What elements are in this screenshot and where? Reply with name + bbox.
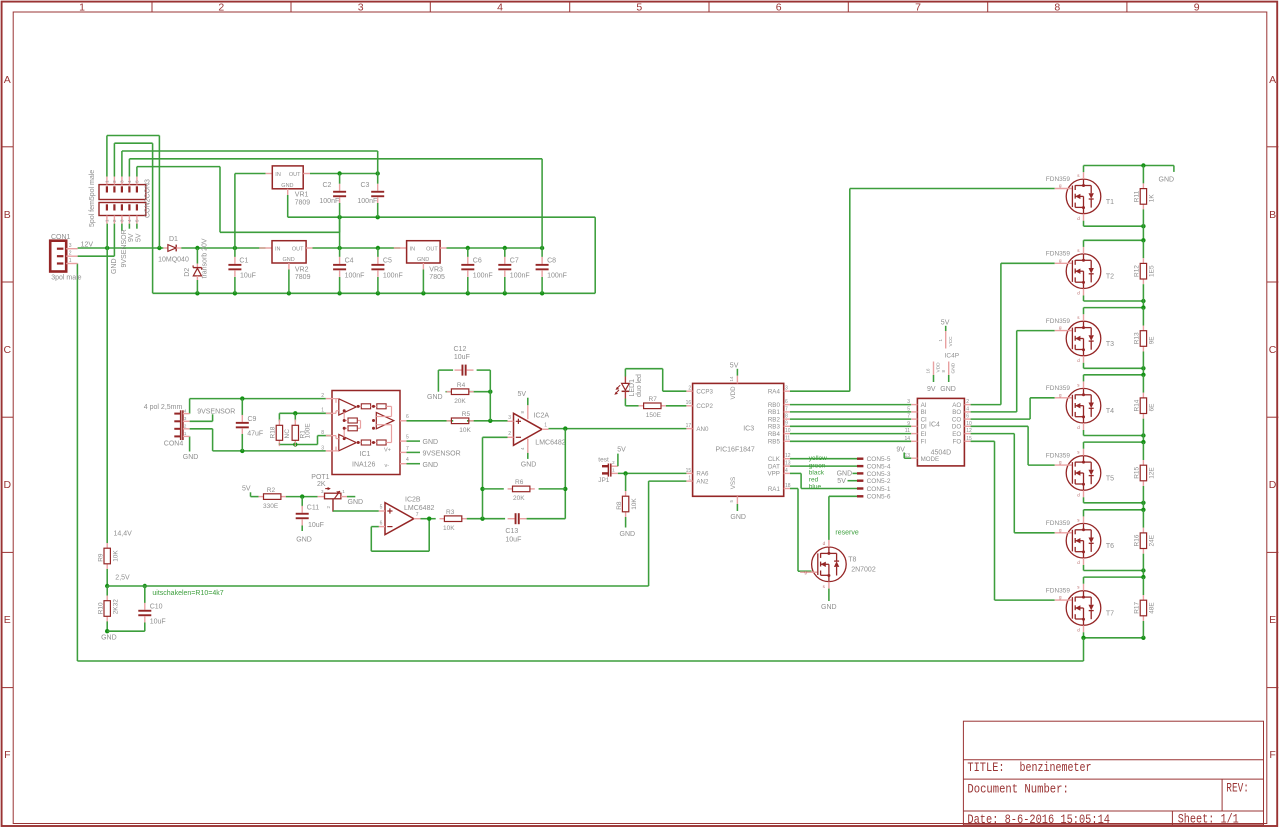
wire CON4 pin1 gnd stub xyxy=(189,436,191,451)
wire DO to T5 gate xyxy=(971,426,1055,465)
svg-text:1: 1 xyxy=(321,408,324,414)
svg-text:9V: 9V xyxy=(128,233,135,242)
svg-text:RA4: RA4 xyxy=(768,389,781,396)
svg-text:PIC16F1847: PIC16F1847 xyxy=(716,447,755,454)
svg-text:100nF: 100nF xyxy=(547,272,567,279)
wire protected 12V (D1 cathode - C1 - VR2 IN) xyxy=(181,174,265,251)
supply 5V (IC4P VCC) xyxy=(941,319,950,331)
resistor R16 24E xyxy=(1134,510,1156,571)
svg-text:3: 3 xyxy=(508,415,511,421)
svg-text:1K: 1K xyxy=(1149,194,1156,203)
svg-text:EI: EI xyxy=(921,431,927,438)
svg-text:4: 4 xyxy=(966,407,969,413)
wire 5V net (VR3 out - C6 C7 C8, riser to CON2 pin4) xyxy=(129,159,544,250)
wire VPP to CON5-1 (blue) xyxy=(790,473,857,488)
svg-text:T4: T4 xyxy=(1106,408,1114,415)
svg-text:GND: GND xyxy=(296,536,312,543)
wire LED1 anode to CCP3 xyxy=(625,369,686,392)
wire RA4 to T1 gate xyxy=(790,189,1055,392)
svg-text:GND: GND xyxy=(521,462,537,469)
resistor R14 6E xyxy=(1134,375,1156,436)
svg-text:10uF: 10uF xyxy=(240,272,256,279)
wire LED1 cathode to R7 xyxy=(625,399,638,406)
wire T1 source rail xyxy=(1084,221,1146,229)
svg-text:1E5: 1E5 xyxy=(1149,265,1156,277)
svg-text:R16: R16 xyxy=(1134,534,1141,546)
wire sensor low rail (CON4 pin2 - C9 - IC1 pin3) xyxy=(190,429,326,453)
wire CON2 lower pin stubs (net labels) xyxy=(122,224,137,231)
wire rail R16 to R17 xyxy=(1142,571,1144,578)
svg-text:GND: GND xyxy=(821,604,837,611)
svg-text:2: 2 xyxy=(69,251,72,257)
svg-text:R7: R7 xyxy=(649,396,658,403)
wire RB5 to IC4 FI xyxy=(790,440,911,442)
svg-text:GND: GND xyxy=(183,454,199,461)
svg-text:RA1: RA1 xyxy=(768,486,781,493)
svg-text:C11: C11 xyxy=(307,505,319,512)
svg-text:POT1: POT1 xyxy=(311,474,329,481)
svg-text:VR2: VR2 xyxy=(295,266,309,273)
svg-text:9V: 9V xyxy=(927,386,936,393)
svg-text:Document Number:: Document Number: xyxy=(967,782,1068,797)
svg-text:100nF: 100nF xyxy=(383,272,403,279)
resistor R8 10K xyxy=(616,473,638,527)
wire T2 source rail xyxy=(1084,296,1146,304)
svg-text:3: 3 xyxy=(321,445,324,451)
svg-text:JP1: JP1 xyxy=(598,477,610,484)
svg-text:V+: V+ xyxy=(384,447,391,453)
svg-text:CON4: CON4 xyxy=(164,441,184,448)
svg-text:yellow: yellow xyxy=(809,455,827,462)
transistor T6 FDN359 xyxy=(1046,516,1114,565)
wire CO to T4 gate xyxy=(971,398,1055,419)
wire R3 to C13 node xyxy=(467,517,505,521)
svg-text:D: D xyxy=(1269,479,1277,491)
svg-text:2: 2 xyxy=(966,399,969,405)
svg-text:6: 6 xyxy=(380,520,383,526)
potentiometer POT1 2K xyxy=(311,474,347,512)
wire RA1 to T8 gate xyxy=(790,489,812,572)
regulator VR2 7809 xyxy=(259,241,312,294)
wire RB2 to IC4 CI xyxy=(790,418,911,420)
supply 5V (IC3 VDD) xyxy=(730,363,739,376)
wire IC2B feedback loop xyxy=(371,519,429,552)
svg-text:C5: C5 xyxy=(383,258,392,265)
svg-text:CON2CON3: CON2CON3 xyxy=(145,179,152,218)
svg-text:9E: 9E xyxy=(1149,336,1156,345)
svg-text:v-: v- xyxy=(385,463,390,469)
svg-text:BO: BO xyxy=(952,409,961,416)
resistor R1 100E xyxy=(292,413,311,446)
svg-text:C8: C8 xyxy=(547,258,556,265)
svg-text:DAT: DAT xyxy=(768,463,780,470)
svg-text:2N7002: 2N7002 xyxy=(851,567,876,574)
svg-text:10MQ040: 10MQ040 xyxy=(158,256,189,263)
svg-text:RB1: RB1 xyxy=(768,409,781,416)
svg-text:IC2A: IC2A xyxy=(534,412,550,419)
svg-text:TITLE:: TITLE: xyxy=(967,760,1004,775)
wire 12V net (CON1 pin3 - D1 - VR2 in, riser to CON2) xyxy=(78,136,164,544)
svg-text:C2: C2 xyxy=(323,182,332,189)
wire 9V net (VR2 out - C4 C5 - VR3 in, tee to CON2 pin5) xyxy=(137,167,400,251)
svg-text:VR1: VR1 xyxy=(295,192,309,199)
svg-text:IN: IN xyxy=(275,247,281,253)
wire FO to T7 gate xyxy=(971,441,1055,600)
regulator VR3 7805 xyxy=(394,241,447,294)
svg-text:C1: C1 xyxy=(239,258,248,265)
svg-text:DI: DI xyxy=(921,424,927,431)
svg-text:7: 7 xyxy=(907,414,910,420)
svg-text:9: 9 xyxy=(1194,1,1200,13)
svg-text:5V: 5V xyxy=(730,363,739,370)
transistor T8 2N7002 xyxy=(800,540,876,589)
ground GND (POT1) xyxy=(347,497,363,507)
wire POT1 wiper to IC2B+ xyxy=(333,510,379,512)
transistor T2 FDN359 xyxy=(1046,247,1114,296)
svg-text:GND: GND xyxy=(951,362,957,373)
svg-text:FDN359: FDN359 xyxy=(1046,318,1071,325)
svg-text:9V: 9V xyxy=(896,446,905,453)
svg-text:C13: C13 xyxy=(505,528,518,535)
svg-text:3: 3 xyxy=(785,386,788,392)
svg-text:GND: GND xyxy=(940,386,956,393)
svg-text:B: B xyxy=(4,209,11,221)
connector CON2CON3 (5pol fem / 5pol male) xyxy=(89,170,152,227)
svg-text:A: A xyxy=(1269,74,1276,86)
svg-text:CON5-6: CON5-6 xyxy=(867,494,891,501)
svg-text:20K: 20K xyxy=(454,398,466,405)
capacitor C7 100nF xyxy=(498,248,529,293)
svg-text:D2: D2 xyxy=(184,268,191,277)
transistor T4 FDN359 xyxy=(1046,381,1114,430)
svg-text:7: 7 xyxy=(785,406,788,412)
connector CON4 (4 pol 2,5mm) xyxy=(144,404,199,461)
wire AO to T2 gate xyxy=(971,263,1055,404)
svg-text:A: A xyxy=(4,74,11,86)
svg-text:AO: AO xyxy=(952,402,961,409)
svg-text:R11: R11 xyxy=(1134,190,1141,202)
svg-text:FDN359: FDN359 xyxy=(1046,251,1071,258)
resistor R17 48E xyxy=(1134,577,1156,638)
svg-text:GND: GND xyxy=(423,462,439,469)
svg-text:C7: C7 xyxy=(510,258,519,265)
resistor R9 10K xyxy=(97,543,119,569)
wire CON5-6 to T8 drain (reserve) xyxy=(829,496,857,540)
svg-text:5: 5 xyxy=(636,1,642,13)
svg-text:3: 3 xyxy=(69,243,72,249)
wire EO to T6 gate xyxy=(971,434,1055,533)
svg-text:100E: 100E xyxy=(305,423,312,439)
svg-text:6: 6 xyxy=(406,414,409,420)
capacitor C6 100nF xyxy=(461,248,492,293)
svg-text:100nF: 100nF xyxy=(345,272,365,279)
svg-text:RB4: RB4 xyxy=(768,431,781,438)
op-amp IC1 INA126 instrumentation amplifier xyxy=(321,391,460,475)
svg-text:T8: T8 xyxy=(848,557,856,564)
wire rail R13 to R14 xyxy=(1142,368,1144,375)
wire rail R11 to R12 xyxy=(1142,226,1144,240)
diode D2 transorb 20V xyxy=(184,238,208,293)
svg-text:IC3: IC3 xyxy=(743,425,754,432)
resistor R13 9E xyxy=(1134,308,1156,369)
capacitor C3 100nF xyxy=(357,174,384,218)
svg-text:5V: 5V xyxy=(941,319,950,326)
wire R2 - POT1 node xyxy=(286,494,318,498)
wire CON1 pin2 to CON2 lower pin2 xyxy=(78,224,115,257)
microcontroller IC3 PIC16F1847 xyxy=(686,376,791,504)
capacitor C5 100nF xyxy=(371,248,402,293)
svg-text:4 pol 2,5mm: 4 pol 2,5mm xyxy=(144,404,183,411)
svg-text:F: F xyxy=(1269,749,1275,761)
wire bottom rail (regulator grounds) xyxy=(114,143,595,295)
svg-text:R13: R13 xyxy=(1134,332,1141,344)
svg-text:IN: IN xyxy=(410,247,416,253)
supply 5V (JP1) xyxy=(617,447,626,467)
svg-text:12: 12 xyxy=(785,453,791,459)
svg-text:16: 16 xyxy=(926,368,931,374)
svg-text:8: 8 xyxy=(785,414,788,420)
resistor R2 330E xyxy=(259,487,286,510)
wire R7 to CCP2 xyxy=(666,405,687,407)
resistor R11 1K xyxy=(1134,166,1156,227)
svg-text:18: 18 xyxy=(785,483,791,489)
svg-text:T7: T7 xyxy=(1106,611,1114,618)
svg-text:330E: 330E xyxy=(263,503,279,510)
svg-text:13: 13 xyxy=(785,461,791,467)
wire T3 source rail xyxy=(1084,363,1146,371)
svg-text:24E: 24E xyxy=(1149,534,1156,546)
svg-text:IC4: IC4 xyxy=(929,422,940,429)
wire RB4 to IC4 EI xyxy=(790,433,911,435)
svg-text:3pol male: 3pol male xyxy=(51,274,81,281)
svg-text:blue: blue xyxy=(809,484,822,491)
svg-text:9: 9 xyxy=(785,421,788,427)
svg-text:5V: 5V xyxy=(135,233,142,242)
resistor R6 20K xyxy=(483,479,566,502)
capacitor C11 10uF xyxy=(296,497,324,531)
svg-text:LED1: LED1 xyxy=(629,379,636,397)
svg-text:10uF: 10uF xyxy=(454,354,470,361)
svg-text:VCC: VCC xyxy=(948,336,954,347)
svg-text:R2: R2 xyxy=(267,487,276,494)
wire rail R15 to R16 xyxy=(1142,503,1144,510)
svg-text:R17: R17 xyxy=(1134,601,1141,613)
transistor T3 FDN359 xyxy=(1046,314,1114,363)
svg-text:9: 9 xyxy=(907,421,910,427)
svg-text:6: 6 xyxy=(966,414,969,420)
supply 5V (IC2A) xyxy=(518,391,528,405)
svg-text:F: F xyxy=(4,749,10,761)
wire C13 to IC2A out riser xyxy=(527,429,568,519)
svg-text:red: red xyxy=(809,477,819,484)
svg-text:2: 2 xyxy=(508,431,511,437)
resistor R18 NC xyxy=(270,413,291,446)
capacitor C12 10uF xyxy=(454,346,474,376)
svg-text:R5: R5 xyxy=(462,411,471,418)
svg-text:CON5-1: CON5-1 xyxy=(867,486,891,493)
svg-text:3: 3 xyxy=(907,399,910,405)
svg-text:REV:: REV: xyxy=(1226,780,1249,795)
svg-text:GND: GND xyxy=(1159,176,1175,183)
wire RB3 to IC4 DI xyxy=(790,425,911,427)
svg-text:OUT: OUT xyxy=(292,247,304,253)
wire CLK to CON5-5 (yellow) xyxy=(790,458,857,460)
svg-text:10: 10 xyxy=(785,428,791,434)
wire T2 drain rail xyxy=(1084,238,1146,247)
svg-text:2: 2 xyxy=(218,1,224,13)
svg-text:BI: BI xyxy=(921,409,927,416)
wire T5 drain rail xyxy=(1084,440,1146,449)
svg-text:4: 4 xyxy=(785,468,788,474)
capacitor C13 10uF xyxy=(505,513,526,543)
svg-text:IC2B: IC2B xyxy=(405,497,421,504)
resistor R7 150E xyxy=(639,396,666,419)
svg-text:100nF: 100nF xyxy=(510,272,530,279)
svg-text:test: test xyxy=(598,456,609,463)
svg-text:CON5-3: CON5-3 xyxy=(867,471,891,478)
svg-text:10K: 10K xyxy=(443,525,455,532)
transistor T7 FDN359 xyxy=(1046,584,1114,633)
svg-text:R6: R6 xyxy=(515,479,524,486)
svg-text:100nF: 100nF xyxy=(473,272,493,279)
svg-text:GND: GND xyxy=(281,183,293,189)
wire gain rail bottom (R18 R1 - IC1 pin8) xyxy=(279,436,332,447)
svg-text:R14: R14 xyxy=(1134,399,1141,411)
connector CON5 pads xyxy=(857,456,891,501)
op-amp IC2B LMC6482 xyxy=(379,497,435,535)
resistor R10 2K32 xyxy=(97,586,119,631)
svg-text:4: 4 xyxy=(406,457,409,463)
svg-text:FI: FI xyxy=(921,439,927,446)
wire IC1 out to R5 to IC2A+ xyxy=(407,419,508,423)
svg-text:VR3: VR3 xyxy=(429,266,443,273)
capacitor C10 10uF xyxy=(138,586,165,631)
svg-text:5V: 5V xyxy=(518,391,527,398)
wire VR1 gnd rail (C2 C3 bottoms) xyxy=(288,195,596,293)
wire CON4 pin3 stub 9VSENSOR xyxy=(190,414,213,421)
svg-text:uitschakelen=R10=4k7: uitschakelen=R10=4k7 xyxy=(152,590,223,597)
wire IC2A output to AN0 xyxy=(549,426,687,430)
svg-text:17: 17 xyxy=(686,423,692,429)
wire T7 drain rail xyxy=(1084,575,1146,584)
svg-text:C10: C10 xyxy=(150,604,163,611)
net label 9V (IC4 MODE) xyxy=(896,446,911,458)
svg-text:RB2: RB2 xyxy=(768,416,781,423)
svg-text:1: 1 xyxy=(79,1,85,13)
svg-text:IN: IN xyxy=(275,172,281,178)
svg-text:7809: 7809 xyxy=(295,199,311,206)
svg-text:FDN359: FDN359 xyxy=(1046,385,1071,392)
svg-text:14: 14 xyxy=(729,376,734,382)
svg-text:6: 6 xyxy=(776,1,782,13)
svg-text:FDN359: FDN359 xyxy=(1046,520,1071,527)
wire 9VSENSOR top rail (CON4 pin4 - C9 - IC1 pin2) xyxy=(190,396,326,413)
svg-text:5pol fem5pol male: 5pol fem5pol male xyxy=(89,170,96,227)
svg-text:47uF: 47uF xyxy=(247,430,263,437)
transistor T5 FDN359 xyxy=(1046,449,1114,498)
svg-text:AN0: AN0 xyxy=(696,426,709,433)
svg-text:AN2: AN2 xyxy=(696,478,709,485)
svg-text:GND: GND xyxy=(730,514,746,521)
svg-text:R18: R18 xyxy=(270,426,277,438)
supply 5V (R2) xyxy=(242,486,259,497)
svg-text:T3: T3 xyxy=(1106,341,1114,348)
svg-text:R4: R4 xyxy=(457,382,466,389)
wire T7 source to ground return xyxy=(1081,636,1085,661)
svg-text:5V: 5V xyxy=(242,486,251,493)
svg-text:IC4P: IC4P xyxy=(945,352,959,359)
capacitor C1 10uF xyxy=(228,248,256,293)
svg-text:B: B xyxy=(1269,209,1276,221)
capacitor C8 100nF xyxy=(536,248,567,293)
diode D1 10MQ040 xyxy=(158,236,189,263)
svg-text:14,4V: 14,4V xyxy=(114,531,133,538)
supply 5V (CON5-2) xyxy=(837,478,857,485)
svg-text:100nF: 100nF xyxy=(357,198,377,205)
svg-text:D: D xyxy=(4,479,12,491)
svg-text:6: 6 xyxy=(785,399,788,405)
svg-text:C4: C4 xyxy=(345,258,354,265)
transistor T1 FDN359 xyxy=(1046,172,1114,221)
wire IC2A- feedback branch xyxy=(480,437,507,518)
svg-text:C6: C6 xyxy=(473,258,482,265)
svg-text:VPP: VPP xyxy=(768,471,780,478)
svg-text:T1: T1 xyxy=(1106,199,1114,206)
svg-text:5V: 5V xyxy=(837,478,846,485)
wire DAT to CON5-4 (green) xyxy=(790,465,857,467)
svg-text:VDD: VDD xyxy=(730,386,737,400)
svg-text:12E: 12E xyxy=(1149,467,1156,479)
LED LED1 duo led xyxy=(614,374,643,399)
svg-text:CI: CI xyxy=(921,416,927,423)
jumper JP1 xyxy=(598,460,618,484)
svg-text:FDN359: FDN359 xyxy=(1046,176,1071,183)
svg-text:C9: C9 xyxy=(248,416,257,423)
svg-text:20K: 20K xyxy=(513,495,525,502)
svg-text:MODE: MODE xyxy=(921,456,940,463)
svg-text:5: 5 xyxy=(907,407,910,413)
regulator VR1 7809 xyxy=(266,166,311,206)
svg-text:7809: 7809 xyxy=(295,274,311,281)
svg-text:10K: 10K xyxy=(459,427,471,434)
svg-text:R9: R9 xyxy=(97,553,104,562)
svg-text:2K: 2K xyxy=(317,481,326,488)
svg-text:LMC6482: LMC6482 xyxy=(535,440,565,447)
wire T3 drain rail xyxy=(1084,305,1146,314)
wire CON1 pin1 ground drop xyxy=(76,264,78,662)
svg-text:8: 8 xyxy=(1054,1,1060,13)
wire BO to T3 gate xyxy=(971,331,1055,412)
op-amp IC2A LMC6482 xyxy=(508,405,566,453)
svg-text:E: E xyxy=(4,614,11,626)
svg-text:10uF: 10uF xyxy=(308,522,324,529)
svg-text:8: 8 xyxy=(321,430,324,436)
svg-text:FDN359: FDN359 xyxy=(1046,453,1071,460)
svg-text:1: 1 xyxy=(688,476,691,482)
svg-text:3: 3 xyxy=(358,1,364,13)
svg-text:Date: 8-6-2016 15:05:14: Date: 8-6-2016 15:05:14 xyxy=(967,812,1110,827)
svg-text:EO: EO xyxy=(952,431,961,438)
svg-text:GND: GND xyxy=(348,499,364,506)
svg-text:14: 14 xyxy=(904,436,910,442)
svg-text:1: 1 xyxy=(69,258,72,264)
svg-text:6E: 6E xyxy=(1149,403,1156,412)
svg-text:GND: GND xyxy=(423,439,439,446)
svg-text:R3: R3 xyxy=(446,509,455,516)
ground GND (T1 drain) xyxy=(1143,166,1174,184)
wire T5 source rail xyxy=(1084,497,1146,505)
ground GND (T8 source) xyxy=(821,589,837,611)
